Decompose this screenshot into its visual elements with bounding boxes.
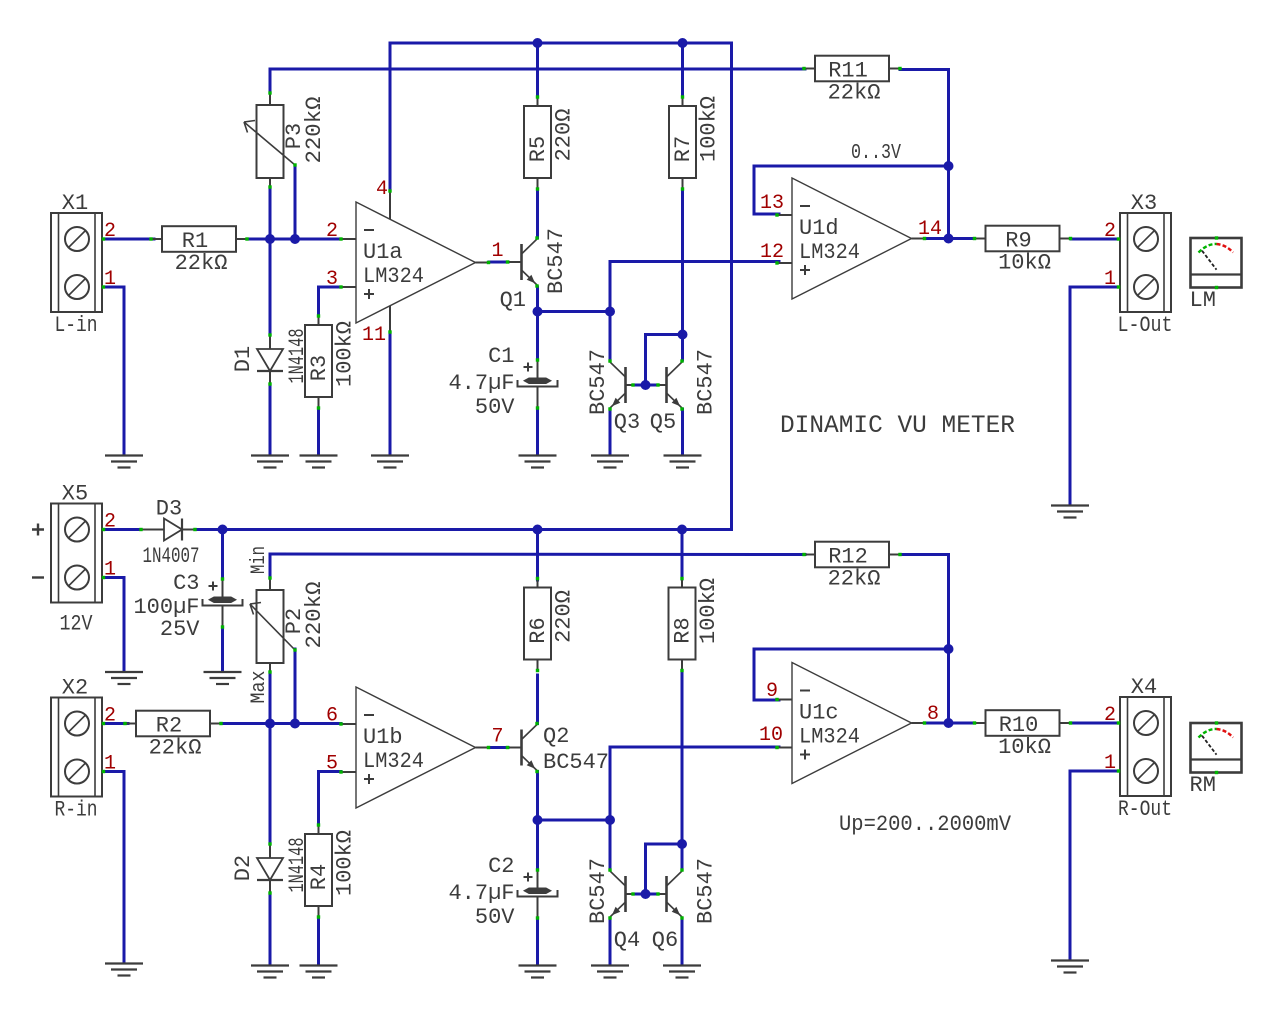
ground C1: [519, 456, 557, 468]
resistor R6: [524, 577, 577, 672]
junction R1/P3: [265, 234, 275, 244]
wire R11 to output node: [900, 70, 949, 240]
wire R12 to output node: [900, 555, 949, 724]
ground X5: [105, 672, 143, 684]
junction Q1 emitter: [533, 307, 543, 317]
wire R3 to ground: [317, 408, 320, 454]
svg-text:DINAMIC VU METER: DINAMIC VU METER: [780, 411, 1015, 440]
svg-text:100kΩ: 100kΩ: [333, 321, 358, 387]
svg-text:L-Out: L-Out: [1118, 313, 1173, 338]
wire Q1 emitter node: [538, 310, 611, 313]
wire Q1 emitter down: [536, 287, 539, 312]
ground U1a pin11: [371, 456, 409, 468]
connector X5: [32, 482, 116, 637]
potentiometer P2: [250, 576, 327, 673]
op-amp U1b: [339, 687, 490, 808]
wire U1b out to Q2 base: [489, 746, 508, 749]
wire U1c feedback: [754, 648, 949, 651]
resistor R8: [669, 577, 722, 672]
svg-text:100µF: 100µF: [133, 595, 199, 620]
wire node to C1: [536, 312, 539, 361]
wire R10 to X4 pin2: [1071, 722, 1120, 725]
connector X2: [51, 676, 116, 823]
svg-text:12: 12: [760, 241, 784, 264]
ground D2: [251, 966, 289, 978]
svg-text:BC547: BC547: [694, 349, 719, 415]
connector X3: [1104, 191, 1173, 338]
wire node to Q4 collector: [609, 820, 612, 870]
wire Q3 emitter to ground: [609, 409, 612, 454]
wire D1 to ground: [269, 384, 272, 454]
svg-text:BC547: BC547: [586, 349, 611, 415]
svg-text:Q2: Q2: [543, 724, 569, 749]
connector X4: [1104, 675, 1172, 822]
ground R4: [300, 966, 338, 978]
capacitor C3: [133, 571, 242, 642]
svg-text:11: 11: [362, 324, 386, 347]
wire Min rail to R12: [270, 553, 805, 557]
wire X1 pin1 to ground: [103, 287, 124, 454]
wire Q4 base to Q6 base: [633, 893, 658, 896]
wire R8 down: [681, 672, 684, 844]
svg-text:22kΩ: 22kΩ: [828, 567, 881, 592]
wire X3 pin1 to ground: [1070, 287, 1120, 503]
svg-text:7: 7: [491, 726, 503, 749]
svg-text:LM324: LM324: [363, 264, 424, 289]
svg-text:LM324: LM324: [799, 725, 860, 750]
svg-text:10kΩ: 10kΩ: [998, 735, 1051, 760]
svg-text:L-in: L-in: [55, 313, 98, 338]
svg-text:Q6: Q6: [652, 928, 678, 953]
junction 0..3V: [944, 161, 954, 171]
svg-text:2: 2: [1104, 220, 1116, 243]
svg-text:RM: RM: [1190, 773, 1216, 798]
ground X4: [1051, 961, 1089, 973]
svg-text:12V: 12V: [60, 612, 94, 637]
svg-text:220kΩ: 220kΩ: [302, 582, 327, 649]
wire to Q6 collector: [681, 844, 684, 870]
svg-text:R7: R7: [671, 136, 696, 162]
svg-text:2: 2: [326, 220, 338, 243]
resistor R1: [149, 226, 248, 276]
junction U1c feedback: [944, 644, 954, 654]
svg-text:4.7µF: 4.7µF: [448, 881, 514, 906]
svg-text:8: 8: [927, 703, 939, 726]
svg-text:2: 2: [104, 705, 116, 728]
ground Q4: [591, 966, 629, 978]
junction U1d output: [944, 234, 954, 244]
svg-text:50V: 50V: [475, 905, 515, 930]
svg-text:U1c: U1c: [799, 701, 839, 726]
svg-text:100kΩ: 100kΩ: [333, 830, 358, 896]
wire U1a pin11 to ground: [389, 332, 392, 454]
wire U1a out to Q1 base: [489, 261, 508, 264]
wire Q5 emitter to ground: [681, 409, 684, 454]
wire C2 to ground: [536, 918, 539, 963]
transistor Q1: [506, 236, 539, 287]
svg-text:X2: X2: [62, 676, 88, 701]
ground Q5: [664, 456, 702, 468]
capacitor C2: [448, 854, 557, 930]
wire P2 top: [269, 554, 272, 578]
svg-text:3: 3: [326, 268, 338, 291]
svg-text:220Ω: 220Ω: [552, 109, 577, 162]
svg-text:5: 5: [326, 753, 338, 776]
svg-text:2: 2: [1104, 704, 1116, 727]
capacitor C1: [448, 344, 557, 420]
transistor Q6: [656, 868, 683, 919]
wire X4 pin1 to ground: [1070, 771, 1120, 958]
junction Q2 emitter: [533, 815, 543, 825]
wire op-amp U1a pin4 to rail: [389, 43, 392, 191]
svg-text:Q4: Q4: [614, 928, 640, 953]
wire node to C2: [536, 820, 539, 870]
wire X2 pin1 to ground: [103, 772, 124, 962]
svg-text:Q3: Q3: [614, 410, 640, 435]
svg-text:2: 2: [104, 220, 116, 243]
op-amp U1c: [775, 663, 926, 784]
wire U1d pin13: [754, 166, 779, 214]
wire X1 pin2 to R1: [103, 238, 154, 241]
wire R9 to X3 pin2: [1071, 238, 1120, 241]
ground X2: [105, 964, 143, 976]
diode D3: [139, 497, 199, 570]
svg-text:14: 14: [918, 218, 942, 241]
svg-text:R5: R5: [526, 136, 551, 162]
svg-text:Up=200..2000mV: Up=200..2000mV: [839, 812, 1012, 837]
wire P3 top: [269, 69, 272, 93]
resistor R5: [524, 95, 577, 190]
wire R7 down: [681, 190, 684, 335]
svg-text:BC547: BC547: [544, 228, 569, 294]
wire X5 pin2 to D3: [103, 528, 141, 531]
diode D1: [231, 329, 310, 386]
wire U1c out to R10: [925, 722, 974, 725]
junction Q6 collector: [677, 839, 687, 849]
ground D1: [251, 456, 289, 468]
svg-text:C2: C2: [488, 854, 514, 879]
svg-text:U1b: U1b: [363, 725, 403, 750]
wire P3 bottom / D1: [269, 187, 272, 335]
wire R1 to U1a pin2: [247, 238, 341, 241]
junction D3/C3: [218, 525, 228, 535]
wire 12V rail: [195, 528, 732, 531]
svg-text:6: 6: [326, 705, 338, 728]
wire node to Q3 collector: [609, 312, 612, 361]
wire Q6 collector to bases: [646, 844, 683, 894]
resistor R9: [973, 226, 1072, 276]
resistor R11: [802, 56, 901, 106]
wire Q6 emitter to ground: [681, 918, 684, 963]
diode D2: [231, 838, 310, 895]
resistor R3: [305, 314, 358, 409]
wire Q3 base to Q5 base: [633, 384, 658, 387]
op-amp U1a: [339, 202, 490, 323]
junction P2 wiper: [290, 719, 300, 729]
svg-text:X3: X3: [1131, 191, 1157, 216]
svg-text:9: 9: [766, 680, 778, 703]
wire C1 to ground: [536, 408, 539, 454]
svg-text:X5: X5: [62, 482, 88, 507]
connector X1: [51, 191, 116, 338]
svg-text:LM324: LM324: [799, 240, 860, 265]
wire Q4 emitter to ground: [609, 918, 612, 963]
svg-text:BC547: BC547: [586, 858, 611, 924]
svg-text:R-in: R-in: [55, 798, 98, 823]
transistor Q5: [656, 359, 683, 410]
ground C3: [204, 672, 242, 684]
wire X2 pin2 to R2: [103, 722, 128, 725]
svg-text:1: 1: [1104, 268, 1116, 291]
svg-text:22kΩ: 22kΩ: [828, 81, 881, 106]
wire D2 to ground: [269, 895, 272, 963]
svg-text:13: 13: [760, 192, 784, 215]
wire top V+ rail: [390, 42, 732, 45]
svg-text:10: 10: [759, 724, 783, 747]
transistor Q3: [608, 359, 634, 410]
svg-text:D3: D3: [156, 497, 182, 522]
svg-text:1: 1: [1104, 752, 1116, 775]
svg-text:1: 1: [104, 559, 116, 582]
svg-text:LM324: LM324: [363, 749, 424, 774]
svg-text:1: 1: [104, 753, 116, 776]
wire U1d out to R9: [925, 237, 974, 240]
svg-text:C1: C1: [488, 344, 514, 369]
svg-text:Q1: Q1: [500, 288, 526, 313]
wire 0..3V feedback: [754, 165, 949, 168]
wire P3 wiper down: [294, 165, 297, 239]
meter LM: [1190, 236, 1242, 313]
wire U1b pin5: [319, 770, 342, 773]
transistor Q4: [608, 868, 634, 919]
wire R4 top: [317, 772, 320, 826]
svg-text:10kΩ: 10kΩ: [998, 251, 1051, 276]
wire R5 to Q1 collector: [536, 190, 539, 238]
svg-text:Q5: Q5: [650, 410, 676, 435]
svg-text:4: 4: [376, 178, 388, 201]
svg-text:2: 2: [104, 511, 116, 534]
svg-text:4.7µF: 4.7µF: [448, 371, 514, 396]
wire rail to R7: [681, 43, 684, 97]
ground R3: [300, 456, 338, 468]
svg-text:220kΩ: 220kΩ: [302, 97, 327, 164]
svg-text:R8: R8: [671, 617, 696, 643]
svg-text:Min: Min: [248, 546, 271, 574]
svg-text:C3: C3: [173, 571, 199, 596]
resistor R10: [973, 710, 1072, 760]
wire node to U1c pin10: [610, 747, 779, 820]
junction R2/P2: [265, 719, 275, 729]
ground Q6: [663, 966, 701, 978]
potentiometer P3: [244, 91, 327, 188]
wire R4 to ground: [317, 917, 320, 963]
wire rail to C3: [221, 530, 224, 580]
junction V+ R5: [533, 38, 543, 48]
svg-text:22kΩ: 22kΩ: [175, 251, 228, 276]
svg-text:X1: X1: [62, 191, 88, 216]
wire node to U1d pin12: [610, 262, 779, 312]
svg-text:50V: 50V: [475, 395, 515, 420]
op-amp U1a power pins 4/11: [389, 191, 391, 332]
wire to Q5 collector: [681, 335, 684, 361]
op-amp U1d: [775, 178, 926, 299]
wire Q2 emitter node: [538, 819, 611, 822]
wire rail to R5: [536, 43, 539, 97]
svg-text:LM: LM: [1190, 288, 1216, 313]
wire rail to R8: [681, 530, 684, 580]
wire rail to R6: [536, 530, 539, 581]
svg-text:1: 1: [104, 268, 116, 291]
wire R6 to Q2 collector: [536, 675, 539, 724]
svg-text:Max: Max: [248, 671, 271, 704]
junction V+ R7: [678, 38, 688, 48]
svg-text:220Ω: 220Ω: [552, 590, 577, 643]
junction rail R8: [677, 525, 687, 535]
svg-text:1: 1: [491, 240, 503, 263]
svg-text:0..3V: 0..3V: [851, 142, 901, 165]
junction Q4/Q6 base: [641, 889, 651, 899]
resistor R7: [669, 95, 722, 190]
junction Q3 collector node: [605, 307, 615, 317]
svg-text:R4: R4: [307, 864, 332, 890]
wire U1a pin3: [319, 286, 342, 289]
ground X1: [105, 456, 143, 468]
junction Q5 collector: [678, 330, 688, 340]
ground Q3: [591, 456, 629, 468]
svg-text:U1a: U1a: [363, 240, 403, 265]
junction Q3/Q5 base: [641, 380, 651, 390]
resistor R12: [802, 542, 901, 592]
svg-text:BC547: BC547: [543, 750, 609, 775]
junction rail R6: [533, 525, 543, 535]
svg-text:25V: 25V: [160, 617, 200, 642]
wire P3 top rail to R11: [270, 68, 805, 71]
wire right V+ drop: [730, 43, 733, 530]
wire X5 pin1 to ground: [103, 578, 124, 671]
resistor R4: [305, 823, 358, 918]
junction P3 wiper: [290, 234, 300, 244]
meter RM: [1190, 721, 1242, 798]
wire R2 to U1b pin6: [221, 722, 341, 725]
ground C2: [519, 966, 557, 978]
svg-text:D2: D2: [231, 855, 256, 881]
wire P2 bottom / D2: [269, 672, 272, 844]
wire Q5 collector to bases: [646, 335, 683, 386]
junction Q4 collector node: [605, 815, 615, 825]
wire R3 top: [317, 287, 320, 316]
svg-text:X4: X4: [1131, 675, 1157, 700]
wire Q2 emitter down: [536, 772, 539, 821]
resistor R2: [123, 711, 222, 761]
svg-text:U1d: U1d: [799, 216, 839, 241]
wire C3 to ground: [221, 627, 224, 670]
wire U1c pin9: [754, 649, 779, 700]
svg-text:1N4007: 1N4007: [143, 544, 200, 569]
transistor Q2: [506, 722, 539, 773]
svg-text:R3: R3: [307, 355, 332, 381]
svg-text:22kΩ: 22kΩ: [149, 736, 202, 761]
junction U1c output: [944, 718, 954, 728]
svg-text:R6: R6: [526, 617, 551, 643]
ground X3: [1051, 506, 1089, 518]
svg-text:100kΩ: 100kΩ: [696, 578, 721, 644]
svg-text:D1: D1: [231, 346, 256, 372]
svg-text:100kΩ: 100kΩ: [697, 96, 722, 162]
svg-text:R-Out: R-Out: [1118, 797, 1172, 822]
wire P2 wiper down: [294, 649, 297, 724]
svg-text:BC547: BC547: [694, 858, 719, 924]
